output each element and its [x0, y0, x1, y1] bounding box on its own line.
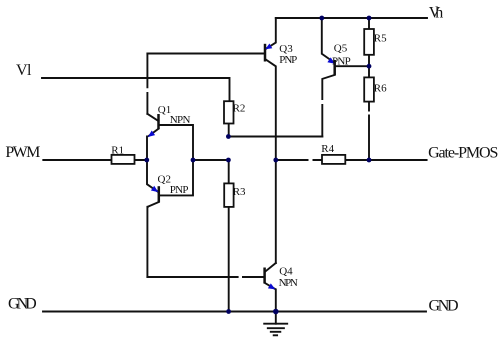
svg-text:PNP: PNP [332, 56, 351, 68]
svg-text:R2: R2 [233, 103, 246, 115]
svg-text:Vl: Vl [16, 62, 32, 79]
svg-text:R3: R3 [233, 186, 246, 198]
svg-text:R5: R5 [374, 33, 387, 45]
svg-text:NPN: NPN [279, 277, 298, 289]
svg-text:Q5: Q5 [334, 43, 348, 55]
svg-text:R6: R6 [374, 83, 387, 95]
svg-text:R4: R4 [321, 143, 334, 155]
svg-text:Gate-PMOS: Gate-PMOS [428, 145, 498, 162]
svg-text:GND: GND [8, 296, 37, 313]
svg-text:PWM: PWM [5, 144, 40, 161]
svg-text:PNP: PNP [170, 184, 189, 196]
svg-text:Q4: Q4 [279, 266, 293, 278]
svg-text:R1: R1 [111, 145, 124, 157]
svg-text:NPN: NPN [170, 114, 191, 126]
svg-text:PNP: PNP [279, 54, 297, 66]
svg-text:GND: GND [429, 297, 459, 314]
svg-text:Vh: Vh [429, 5, 444, 22]
